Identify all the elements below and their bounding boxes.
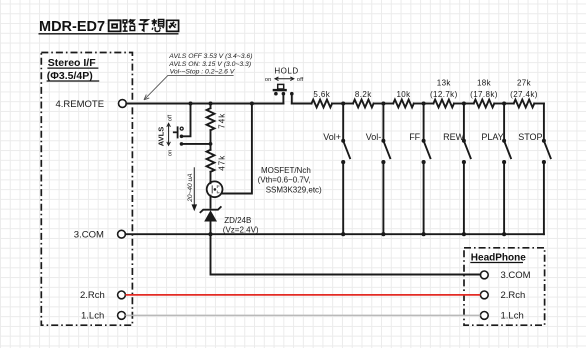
wire switch SW2 to bus xyxy=(382,162,384,234)
switch SW1 Vol+ blade xyxy=(341,139,345,143)
label Stereo I/F xyxy=(47,57,98,69)
svg-text:Vol+: Vol+ xyxy=(323,132,341,142)
terminal HP 2.Rch xyxy=(480,291,488,299)
resistor R5 18k xyxy=(464,100,504,108)
svg-text:(27.4k): (27.4k) xyxy=(510,90,538,99)
svg-text:FF: FF xyxy=(409,132,420,142)
svg-text:Vol-: Vol- xyxy=(366,132,382,142)
svg-text:74k: 74k xyxy=(217,113,226,129)
connector J2 HeadPhone dash-dot box xyxy=(464,248,545,325)
svg-text:AVLS ON: 3.15 V (3.0~3.3): AVLS ON: 3.15 V (3.0~3.3) xyxy=(168,61,251,68)
wire switch SW5 to bus xyxy=(503,162,505,234)
resistor R2 8.2k xyxy=(343,100,383,108)
svg-text:HeadPhone: HeadPhone xyxy=(471,252,526,263)
AVLS on/off arrow xyxy=(167,123,171,145)
junction dots on COM bus xyxy=(208,232,506,236)
wire 2.Rch (red) xyxy=(125,294,480,296)
resistor R4 13k xyxy=(424,100,464,108)
svg-text:on: on xyxy=(265,77,272,83)
svg-text:AVLS: AVLS xyxy=(156,127,165,146)
wire AVLS riser xyxy=(183,104,191,137)
svg-text:MDR-ED7: MDR-ED7 xyxy=(39,19,105,35)
svg-text:2.Rch: 2.Rch xyxy=(80,290,105,301)
terminal 2.Rch xyxy=(118,291,126,299)
wire switch SW1 to bus xyxy=(342,162,344,234)
wire HOLD contact to chain xyxy=(291,94,293,104)
wire MOSFET source to REMOTE line xyxy=(221,104,252,194)
switch SW3 FF blade xyxy=(422,139,426,143)
switch SW4 REW stub xyxy=(463,104,465,141)
svg-text:(12.7k): (12.7k) xyxy=(430,90,458,99)
title kanji 回 xyxy=(109,20,121,31)
switch SW4 REW blade xyxy=(462,139,466,143)
svg-text:SSM3K329,etc): SSM3K329,etc) xyxy=(266,186,322,195)
junction node AVLS/74k/47k xyxy=(209,142,213,146)
svg-text:REW: REW xyxy=(443,132,465,142)
switch SW4 REW contact xyxy=(462,160,466,164)
annotation note AVLS voltages xyxy=(168,53,252,76)
svg-text:5.6k: 5.6k xyxy=(313,90,330,99)
label (Phi3.5/4P) xyxy=(47,70,100,82)
switch SW3 FF stub xyxy=(423,104,425,141)
switch SW2 Vol- stub xyxy=(382,104,384,141)
value label 13k xyxy=(430,78,458,99)
svg-text:off: off xyxy=(297,77,304,83)
svg-text:1.Lch: 1.Lch xyxy=(81,311,104,322)
wire COM bus xyxy=(125,233,544,235)
svg-text:HOLD: HOLD xyxy=(274,67,298,76)
svg-text:2.Rch: 2.Rch xyxy=(501,290,526,301)
wire switch SW4 to bus xyxy=(463,162,465,234)
svg-text:13k: 13k xyxy=(437,78,452,87)
switch SW5 PLAY stub xyxy=(503,104,505,141)
wire AVLS lower contact to node xyxy=(183,143,211,145)
wire below MOSFET to zener xyxy=(210,196,212,208)
svg-text:STOP: STOP xyxy=(518,132,542,142)
wire 1.Lch (gray) xyxy=(125,314,480,316)
switch HOLD plunger cap xyxy=(278,84,284,89)
svg-text:(Φ3.5/4P): (Φ3.5/4P) xyxy=(47,70,93,82)
value label 18k xyxy=(470,78,498,99)
switch SW2 Vol- contact xyxy=(381,160,385,164)
resistor R3 10k xyxy=(383,100,423,108)
wire switch SW6 to bus xyxy=(543,162,545,234)
switch SW6 STOP blade xyxy=(542,139,546,143)
switch SW1 Vol+ contact xyxy=(341,160,345,164)
HOLD on/off arrow xyxy=(275,77,294,81)
svg-text:(Vth=0.6~0.7V,: (Vth=0.6~0.7V, xyxy=(258,176,311,185)
terminal 1.Lch xyxy=(118,312,126,320)
connector J1 Stereo I/F dash-dot box xyxy=(41,53,132,326)
transistor Q1 MOSFET circle xyxy=(207,181,223,197)
svg-text:3.COM: 3.COM xyxy=(501,270,531,281)
switch SW2 Vol- blade xyxy=(381,139,385,143)
svg-text:3.COM: 3.COM xyxy=(74,229,104,240)
terminal 3.COM xyxy=(118,230,126,238)
resistor R8 47k xyxy=(210,144,212,150)
transistor Q1 internal symbol xyxy=(212,185,219,193)
svg-text:MOSFET/Nch: MOSFET/Nch xyxy=(261,166,311,175)
label HeadPhone xyxy=(470,252,526,263)
svg-text:PLAY: PLAY xyxy=(481,132,503,142)
switch SW1 Vol+ stub xyxy=(342,104,344,141)
svg-text:4.REMOTE: 4.REMOTE xyxy=(56,99,105,110)
value label 27k xyxy=(510,78,538,99)
switch SW5 PLAY blade xyxy=(502,139,506,143)
svg-text:(Vz=2.4V): (Vz=2.4V) xyxy=(223,226,259,235)
title kanji 図 xyxy=(167,20,179,31)
switch AVLS actuator xyxy=(177,126,179,138)
zener diode D1 triangle xyxy=(204,210,217,221)
current arrow 20-40uA xyxy=(187,167,197,211)
wire headphone COM branch xyxy=(211,234,481,274)
svg-text:Stereo I/F: Stereo I/F xyxy=(48,57,96,69)
svg-text:(17.8k): (17.8k) xyxy=(470,90,498,99)
terminal HP 1.Lch xyxy=(480,312,488,320)
terminal 4.REMOTE xyxy=(119,100,127,108)
switch AVLS moving contact xyxy=(180,135,184,139)
svg-text:ZD/24B: ZD/24B xyxy=(224,216,251,225)
junction dots on REMOTE line xyxy=(188,101,506,105)
resistor R7 74k xyxy=(210,104,212,109)
switch SW5 PLAY contact xyxy=(502,160,506,164)
svg-text:on: on xyxy=(168,150,174,157)
svg-text:18k: 18k xyxy=(477,78,492,87)
title kanji 想 xyxy=(152,19,164,32)
svg-text:1.Lch: 1.Lch xyxy=(501,311,524,322)
svg-text:10k: 10k xyxy=(396,90,411,99)
title underline xyxy=(39,33,179,35)
resistor R1 5.6k xyxy=(292,100,343,108)
switch AVLS off contact (open) xyxy=(180,127,183,130)
note leader line with arrow xyxy=(144,75,234,99)
switch SW3 FF contact xyxy=(422,160,426,164)
switch HOLD contacts xyxy=(274,92,278,96)
zener diode D1 ZD/24B cathode bar xyxy=(200,206,222,213)
title kanji 路 xyxy=(123,19,135,31)
wire zener to COM xyxy=(210,222,212,235)
svg-text:8.2k: 8.2k xyxy=(355,90,372,99)
wire REMOTE to HOLD contact xyxy=(282,94,284,104)
svg-text:47k: 47k xyxy=(217,155,226,171)
wire REMOTE line xyxy=(126,103,283,105)
note MOSFET/Nch xyxy=(258,166,322,195)
title kanji 予 xyxy=(139,20,149,31)
wire drain lead xyxy=(210,182,212,184)
svg-text:off: off xyxy=(168,114,174,121)
switch SW6 STOP contact xyxy=(542,160,546,164)
svg-text:27k: 27k xyxy=(517,78,532,87)
terminal HP 3.COM xyxy=(480,271,488,279)
svg-text:Vol-~Stop : 0.2~2.6 V: Vol-~Stop : 0.2~2.6 V xyxy=(170,69,236,76)
wire switch SW3 to bus xyxy=(423,162,425,234)
switch AVLS on contact xyxy=(180,142,184,146)
switch SW6 STOP stub xyxy=(543,104,545,141)
svg-text:AVLS OFF 3.53 V (3.4~3.6): AVLS OFF 3.53 V (3.4~3.6) xyxy=(168,53,252,60)
resistor R6 27k xyxy=(504,100,544,108)
switch HOLD bar xyxy=(273,89,287,91)
svg-text:20~40 uA: 20~40 uA xyxy=(187,173,194,203)
